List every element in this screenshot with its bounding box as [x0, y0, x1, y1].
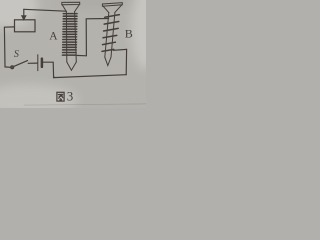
battery (short thick plate)	[41, 59, 44, 67]
svg-text:3: 3	[67, 88, 74, 103]
crease line bottom	[24, 104, 146, 105]
electromagnet A screw tip	[67, 62, 77, 70]
caption figure number 3	[67, 88, 74, 103]
wire link coil A bottom to coil B top	[76, 19, 109, 56]
electromagnet A screw shaft	[66, 12, 76, 62]
electromagnet B screw tip	[105, 57, 111, 65]
wire left (box to switch)	[4, 27, 14, 67]
rheostat R box	[15, 20, 36, 32]
label B	[125, 27, 133, 41]
switch S	[11, 61, 28, 69]
coil A winding (dense)	[63, 14, 78, 56]
svg-text:A: A	[49, 31, 58, 43]
wire top (arrow to coil A)	[24, 9, 66, 11]
battery (long plate)	[37, 55, 39, 71]
wire right (up to coil B)	[125, 49, 127, 74]
rheostat slider arrow	[21, 9, 26, 20]
junction blob bottom-left corner	[53, 76, 55, 78]
label A	[49, 31, 58, 43]
electromagnet A screw head	[62, 2, 80, 11]
wire stub coil B bottom end	[113, 48, 126, 51]
label S	[14, 49, 19, 60]
wire battery to bottom-left corner	[43, 62, 54, 77]
svg-text:B: B	[125, 27, 133, 41]
coil B winding (6 loops)	[102, 15, 119, 52]
wire switch to battery	[28, 62, 37, 64]
wire bottom	[54, 75, 127, 78]
electromagnet B screw shaft	[105, 12, 115, 57]
caption 图 glyph	[57, 92, 64, 101]
electromagnet B screw head	[102, 3, 122, 13]
svg-text:S: S	[14, 49, 19, 60]
